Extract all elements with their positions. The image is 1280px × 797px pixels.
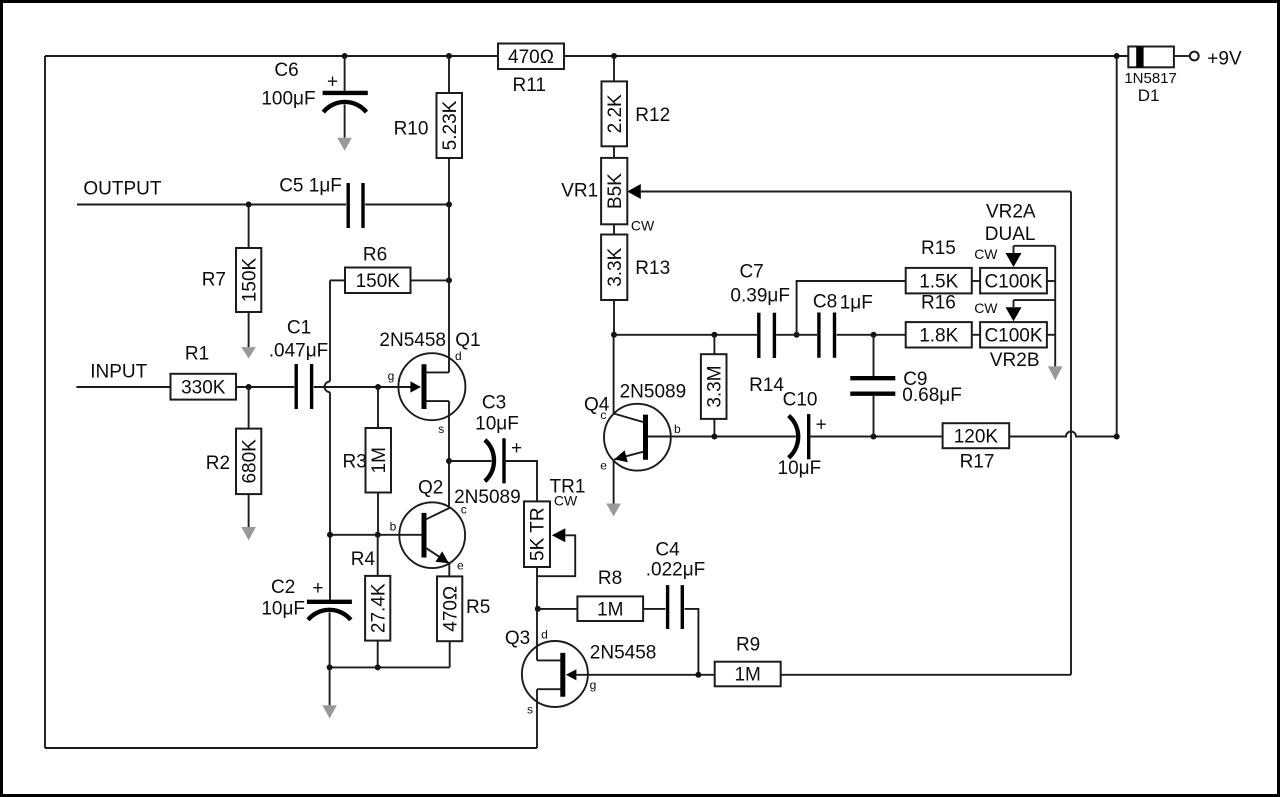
svg-text:b: b [390, 520, 397, 534]
node gnd rail R4 [375, 664, 381, 670]
capacitor C9 [850, 376, 895, 380]
svg-text:b: b [674, 422, 681, 436]
node output drain [446, 202, 452, 208]
svg-text:+: + [816, 414, 827, 435]
wire R3 top [377, 387, 379, 428]
svg-text:R6: R6 [363, 244, 387, 265]
node base left [327, 532, 333, 538]
wire R7 to ground [248, 312, 250, 347]
node rail R10 [446, 53, 452, 59]
wire +9V top rail [45, 55, 1128, 57]
resistor R8 [577, 596, 643, 621]
capacitor C8 [817, 313, 820, 358]
wire VR2A wiper [1014, 245, 1056, 247]
potentiometer VR1 [601, 158, 627, 224]
svg-text:CW: CW [554, 492, 578, 508]
wire VR1 wiper to feedback line [641, 191, 1071, 193]
ground VR2 [1048, 366, 1063, 380]
svg-text:R14: R14 [749, 375, 784, 396]
wire R9 right [781, 674, 1071, 676]
resistor R7 [236, 248, 261, 312]
capacitor C2 [307, 600, 352, 604]
wire R17 right with hop [1009, 432, 1116, 437]
svg-text:C7: C7 [739, 262, 763, 283]
node R14 base [711, 434, 717, 440]
wire TR1 bottom [536, 567, 538, 609]
wire rail to R10 [448, 56, 450, 93]
wire C10 right [809, 436, 943, 438]
svg-text:OUTPUT: OUTPUT [83, 179, 161, 200]
svg-text:C1: C1 [287, 318, 311, 339]
svg-text:680K: 680K [239, 439, 260, 484]
svg-text:1M: 1M [597, 599, 623, 620]
svg-text:R1: R1 [185, 344, 209, 365]
svg-text:150K: 150K [356, 271, 401, 292]
node rail C6 [342, 53, 348, 59]
wire R4 bottom [377, 641, 379, 668]
wire VR2B wiper [1014, 299, 1056, 301]
wire rail junction down to R17 line [1116, 56, 1118, 437]
capacitor C5 [347, 183, 350, 228]
node base R3R4 [375, 532, 381, 538]
svg-text:CW: CW [974, 300, 998, 316]
wire C1 to gate [314, 386, 412, 388]
svg-text:VR1: VR1 [561, 180, 598, 201]
wire C4 to gate line [685, 609, 699, 675]
svg-text:2N5458: 2N5458 [379, 330, 446, 351]
potentiometer VR2B [980, 322, 1047, 347]
svg-text:5.23K: 5.23K [440, 100, 461, 150]
node gnd rail left [327, 664, 333, 670]
wire R12 to VR1 [613, 146, 615, 158]
wire TR1 to Q3 drain [536, 609, 538, 661]
capacitor C3 [485, 440, 494, 481]
wire R15 branch [797, 281, 906, 335]
svg-text:CW: CW [631, 217, 655, 233]
wire R14 bottom [713, 419, 715, 437]
wire Q2 base [330, 534, 422, 536]
svg-text:C8: C8 [813, 292, 837, 313]
svg-text:1.8K: 1.8K [919, 325, 958, 346]
svg-text:0.39μF: 0.39μF [730, 286, 790, 307]
svg-text:+9V: +9V [1207, 49, 1242, 70]
transistor Q4 [604, 404, 671, 471]
resistor R3 [366, 428, 392, 493]
node R6 drain [446, 277, 452, 283]
svg-text:1M: 1M [369, 447, 390, 473]
svg-text:e: e [457, 559, 464, 573]
svg-text:3.3M: 3.3M [704, 365, 725, 407]
capacitor C6 [323, 91, 368, 95]
svg-text:Q3: Q3 [505, 628, 530, 649]
node gate R3 [375, 384, 381, 390]
svg-text:.047μF: .047μF [269, 341, 329, 362]
circuit enclosure left edge [44, 56, 46, 748]
wire R6 left [330, 279, 345, 281]
wire ground rail [330, 666, 450, 668]
wire Q1 source [448, 401, 450, 507]
wire R13 down [613, 300, 615, 335]
wire feedback vertical [1070, 192, 1072, 675]
svg-text:5K TR: 5K TR [528, 507, 549, 561]
node output R7 [246, 202, 252, 208]
svg-text:C100K: C100K [984, 325, 1042, 346]
wire R6 vertical lower [329, 392, 331, 600]
wire rail to ground [329, 667, 331, 705]
ground R7 [241, 347, 256, 358]
svg-text:120K: 120K [954, 426, 999, 447]
svg-text:470Ω: 470Ω [508, 47, 554, 68]
svg-text:R11: R11 [512, 75, 545, 96]
wire R4 top [377, 535, 379, 576]
svg-text:C100K: C100K [984, 271, 1042, 292]
svg-text:R4: R4 [351, 549, 376, 570]
wire R15 to VR2A [972, 280, 980, 282]
wire TR1 wiper [537, 535, 575, 576]
svg-text:10μF: 10μF [261, 599, 305, 620]
svg-text:10μF: 10μF [778, 458, 822, 479]
svg-text:D1: D1 [1138, 86, 1160, 105]
svg-text:1N5817: 1N5817 [1124, 70, 1177, 87]
wire mid line [614, 334, 757, 336]
svg-text:VR2A: VR2A [986, 201, 1036, 222]
svg-text:Q2: Q2 [418, 478, 443, 499]
svg-text:27.4K: 27.4K [368, 583, 389, 633]
svg-text:+: + [511, 438, 522, 459]
wire R3 bottom [377, 493, 379, 535]
svg-text:R5: R5 [466, 597, 490, 618]
resistor R12 [602, 81, 628, 146]
wire rail to R12 [613, 56, 615, 81]
svg-text:470Ω: 470Ω [440, 586, 461, 632]
svg-text:R16: R16 [921, 293, 956, 314]
svg-text:C10: C10 [783, 390, 818, 411]
wire C5 to R10 node [365, 204, 449, 206]
trimmer TR1 [524, 501, 550, 567]
resistor R2 [236, 429, 261, 495]
wire Q4 emitter [613, 459, 615, 503]
svg-text:0.68μF: 0.68μF [902, 385, 962, 406]
wire VR2A right [1047, 280, 1055, 282]
svg-text:INPUT: INPUT [90, 362, 147, 383]
node source C3 [446, 458, 452, 464]
resistor R10 [437, 93, 463, 158]
svg-text:Q1: Q1 [455, 330, 480, 351]
svg-text:c: c [461, 503, 467, 517]
capacitor C4 [666, 585, 669, 629]
resistor R16 [906, 322, 972, 347]
resistor R9 [715, 662, 781, 687]
wire Q4 collector [613, 335, 615, 414]
resistor R4 [365, 576, 390, 641]
wire R16 to VR2B [972, 334, 980, 336]
wire rail to C6 [344, 56, 346, 91]
wire VR2B right [1047, 334, 1055, 336]
svg-text:g: g [388, 369, 395, 383]
svg-text:C4: C4 [655, 540, 680, 561]
ground Q4 [606, 504, 621, 517]
wire output to R7 [248, 205, 250, 249]
wire Q4 base [648, 436, 796, 438]
svg-text:C3: C3 [482, 392, 506, 413]
svg-text:+: + [312, 578, 323, 599]
resistor R11 [498, 44, 564, 70]
svg-text:150K: 150K [239, 257, 260, 302]
svg-text:1M: 1M [734, 665, 760, 686]
svg-text:R15: R15 [921, 238, 956, 259]
wire Q2 emitter to R5 [448, 563, 450, 576]
diode D1 [1128, 47, 1174, 68]
resistor R5 [437, 576, 462, 641]
wire R6 vertical upper [329, 280, 331, 381]
transistor Q1 [398, 353, 465, 420]
wire Q1 drain [448, 205, 450, 373]
wire R1 to C1 [236, 386, 294, 388]
wire R2 top [248, 387, 250, 429]
wire R6 right [411, 279, 450, 281]
svg-text:.022μF: .022μF [646, 560, 706, 581]
potentiometer VR2A [980, 268, 1047, 294]
wire VR1 to R13 [613, 224, 615, 234]
wire Q3 gate [576, 674, 714, 676]
svg-text:10μF: 10μF [475, 414, 519, 435]
svg-text:R2: R2 [206, 453, 230, 474]
node R17 rail [1114, 434, 1120, 440]
wire R8 to C4 [643, 608, 665, 610]
svg-text:330K: 330K [181, 377, 226, 398]
node gate C4 [695, 672, 701, 678]
node R13 Q4 [611, 332, 617, 338]
terminal +9V open circle [1190, 52, 1199, 61]
svg-text:C5 1μF: C5 1μF [279, 176, 342, 197]
svg-text:+: + [327, 71, 338, 92]
svg-text:R8: R8 [598, 568, 622, 589]
svg-text:R12: R12 [635, 105, 670, 126]
svg-text:s: s [527, 703, 533, 717]
circuit enclosure bottom edge [45, 747, 537, 749]
svg-text:d: d [455, 349, 462, 363]
svg-text:g: g [590, 678, 597, 692]
wire R5 bottom [449, 641, 451, 667]
transistor Q2 [399, 502, 465, 568]
svg-text:1μF: 1μF [840, 293, 873, 314]
svg-text:e: e [600, 459, 607, 473]
wire OUTPUT line [77, 204, 346, 206]
wire D1 to +9V terminal [1174, 55, 1189, 57]
ground R2 [241, 527, 256, 540]
VR2A wiper arrow [1013, 246, 1015, 253]
svg-text:R17: R17 [960, 451, 995, 472]
capacitor C1 [295, 364, 298, 409]
svg-text:1.5K: 1.5K [919, 271, 958, 292]
wire R8 left [538, 608, 578, 610]
svg-text:c: c [600, 408, 606, 422]
node R14 top [711, 332, 717, 338]
resistor R17 [943, 423, 1010, 448]
resistor R6 [345, 268, 411, 294]
wire R14 top [713, 335, 715, 354]
resistor R14 [701, 354, 727, 419]
svg-text:3.3K: 3.3K [605, 247, 626, 286]
capacitor C10 [789, 416, 799, 458]
ground C6 [337, 138, 352, 151]
wire Q3 source [536, 689, 538, 748]
wire C9 top [873, 335, 875, 376]
wire R10 to output node [448, 158, 450, 205]
VR1 wiper arrow [627, 184, 641, 199]
svg-text:VR2B: VR2B [990, 350, 1040, 371]
capacitor C7 [757, 313, 760, 358]
svg-text:C6: C6 [274, 60, 298, 81]
wire VR2 common [1054, 246, 1056, 367]
svg-text:DUAL: DUAL [985, 224, 1036, 245]
wire R2 to ground [248, 494, 250, 527]
node C9 top [871, 332, 877, 338]
svg-text:R10: R10 [394, 118, 429, 139]
svg-text:C2: C2 [271, 577, 295, 598]
svg-text:CW: CW [974, 246, 998, 262]
svg-text:2N5458: 2N5458 [590, 643, 657, 664]
wire hop around input wire [325, 381, 330, 392]
wire C8 right [837, 334, 906, 336]
node C9 bottom [871, 434, 877, 440]
ground main [322, 705, 337, 718]
resistor R1 [171, 374, 237, 400]
svg-text:2.2K: 2.2K [605, 94, 626, 133]
resistor R15 [906, 268, 972, 294]
wire C7 to C8 [776, 334, 817, 336]
svg-text:100μF: 100μF [261, 88, 315, 109]
svg-text:d: d [541, 628, 548, 642]
svg-text:R3: R3 [343, 451, 367, 472]
resistor R13 [601, 235, 627, 301]
svg-text:2N5089: 2N5089 [620, 382, 687, 403]
svg-text:B5K: B5K [605, 173, 626, 209]
wire C3 left [449, 460, 492, 462]
node C7 C8 R15 [794, 332, 800, 338]
wire C3 right to TR1 [504, 461, 537, 501]
TR1 wiper arrow [552, 528, 566, 542]
svg-text:R9: R9 [736, 634, 760, 655]
node input R2 [246, 384, 252, 390]
wire C9 bottom [873, 396, 875, 437]
transistor Q3 [522, 641, 588, 707]
node TR1 R8 [535, 606, 541, 612]
node +9V rail to D1 junction [1114, 53, 1120, 59]
svg-text:s: s [438, 422, 444, 436]
VR2B wiper arrow [1013, 300, 1015, 307]
node rail R12 [611, 53, 617, 59]
svg-text:R13: R13 [635, 258, 670, 279]
svg-text:R7: R7 [202, 270, 226, 291]
wire INPUT line [76, 386, 170, 388]
